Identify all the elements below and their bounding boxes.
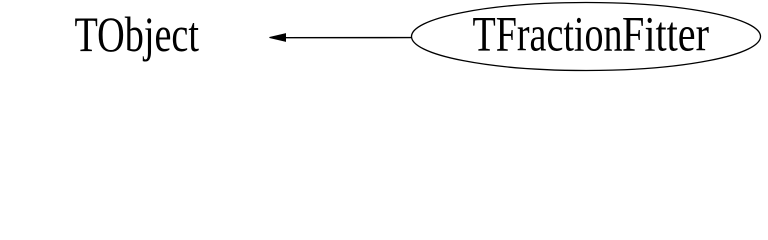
svg-text:TFraction: TFraction — [473, 6, 623, 62]
svg-text:Fitter: Fitter — [622, 6, 709, 62]
svg-text:TObject: TObject — [75, 6, 200, 62]
